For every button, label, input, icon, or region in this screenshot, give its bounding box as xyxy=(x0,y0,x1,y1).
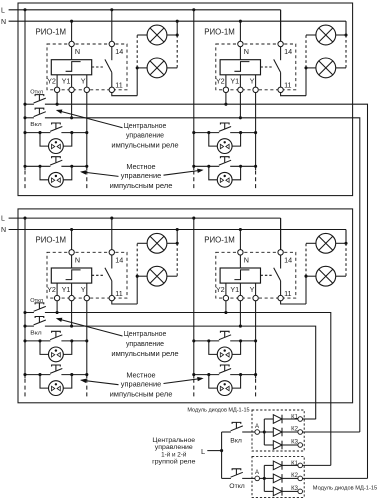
module U1 terminal A xyxy=(255,430,260,435)
pointer to central buttons group 2 xyxy=(58,319,123,336)
svg-text:Центральное: Центральное xyxy=(152,437,195,444)
svg-text:управление: управление xyxy=(155,444,193,451)
pointer to central buttons group 1 xyxy=(58,111,123,128)
module A3 terminal Y2 xyxy=(54,295,59,300)
module A4 terminal 14 xyxy=(278,250,283,255)
svg-text:11: 11 xyxy=(284,81,291,90)
power line N group 1 xyxy=(9,20,346,22)
wires of lamp EL6 xyxy=(137,275,147,277)
diode VD2 of U2 xyxy=(273,474,282,483)
lamp return riser A1 xyxy=(136,68,138,96)
wire N feed to module A2 xyxy=(239,21,241,44)
central OFF bus group 2 xyxy=(25,312,34,314)
lamp EL4 xyxy=(316,58,336,78)
wire L end drop to module A4 contact 14 xyxy=(280,218,282,252)
lamp return riser A4 xyxy=(305,276,307,304)
wire Y1 of A3 to ON bus xyxy=(71,301,73,327)
indicator taps row 1 of A2 xyxy=(209,133,217,147)
svg-text:Y2: Y2 xyxy=(47,77,56,86)
wire N feed to module A1 xyxy=(71,21,73,44)
svg-text:L: L xyxy=(1,7,5,14)
module U2 terminal K2 xyxy=(298,476,303,481)
lamp EL5 xyxy=(147,233,167,253)
module A3 switch contact 14-11 xyxy=(111,255,113,269)
pointer to local buttons left group 2 xyxy=(82,380,119,385)
module A2 terminal Y2 xyxy=(223,87,228,92)
svg-text:управление: управление xyxy=(126,339,164,348)
svg-text:импульсными реле: импульсными реле xyxy=(111,349,178,358)
module A1 terminal N xyxy=(69,41,74,46)
riser to group buttons xyxy=(221,432,223,478)
pointer to local buttons left group 1 xyxy=(82,172,119,177)
svg-text:Вкл: Вкл xyxy=(30,122,41,128)
wire L feed to contact 14 of module A2 xyxy=(280,10,282,44)
module A2 terminal Y xyxy=(253,87,258,92)
module A4 dashed outline xyxy=(216,252,296,298)
button indicator HL8 of A4 xyxy=(217,381,232,396)
svg-text:N: N xyxy=(75,255,80,264)
module A3 coil output stubs Y2 Y1 Y xyxy=(56,283,58,296)
svg-text:К2: К2 xyxy=(291,427,298,433)
wire from terminal 11 of A3 to lamps return xyxy=(112,301,137,304)
module A4 terminal Y xyxy=(253,295,258,300)
group 2 enclosure box xyxy=(18,209,353,403)
lamp EL7 xyxy=(316,233,336,253)
wire K1 of U2 to bus xyxy=(303,464,331,466)
svg-text:Y1: Y1 xyxy=(62,285,71,294)
svg-text:РИО-1М: РИО-1М xyxy=(36,27,67,36)
svg-text:Y1: Y1 xyxy=(230,77,239,86)
svg-text:N: N xyxy=(244,47,249,56)
wire L feed to contact 14 of module A1 xyxy=(111,10,113,44)
wire N feed to module A4 xyxy=(239,230,241,253)
group OFF button SB6 wires xyxy=(222,477,231,479)
module A4 switch contact 14-11 xyxy=(280,255,282,269)
module A2 coil box with impulse symbol xyxy=(220,60,260,75)
module A1 actuator dashed link xyxy=(92,66,105,68)
group ON button SB5 wires xyxy=(222,431,231,433)
indicator taps row 2 of A4 xyxy=(209,375,217,389)
wires of lamp EL7 xyxy=(306,242,316,244)
button indicator HL3 of A2 xyxy=(217,139,232,154)
lamp EL2 xyxy=(147,58,167,78)
module A4 terminal Y1 xyxy=(238,295,243,300)
central ON button SB4 xyxy=(34,320,46,325)
svg-text:К1: К1 xyxy=(291,414,298,420)
svg-text:L: L xyxy=(201,447,205,456)
svg-text:Y2: Y2 xyxy=(216,77,225,86)
module U1 cathode wires xyxy=(282,418,298,420)
wire L feed to contact 14 of module A3 xyxy=(111,218,113,252)
local control line 1 of A2 xyxy=(194,132,219,134)
svg-text:управление: управление xyxy=(121,380,161,389)
local control line 2 of A3 xyxy=(25,374,50,376)
module A3 coil box with impulse symbol xyxy=(51,268,91,283)
module A2 coil output stubs Y2 Y1 Y xyxy=(225,75,227,88)
module A3 terminal Y1 xyxy=(69,295,74,300)
local toggle button SB of A1 row 2 xyxy=(50,160,62,165)
indicator taps row 2 of A2 xyxy=(209,166,217,180)
svg-text:1-й и 2-й: 1-й и 2-й xyxy=(161,450,186,458)
wire L end drop to module A2 contact 14 xyxy=(280,10,282,44)
wires of lamp EL8 xyxy=(306,275,316,277)
module A4 coil output stubs Y2 Y1 Y xyxy=(225,283,227,296)
lamp EL8 xyxy=(316,266,336,286)
button indicator HL6 of A3 xyxy=(49,381,64,396)
svg-text:А: А xyxy=(255,470,259,476)
lamp EL3 xyxy=(316,25,336,45)
wires of lamp EL5 xyxy=(137,242,147,244)
module A2 dashed outline xyxy=(216,44,296,90)
svg-text:К3: К3 xyxy=(291,439,298,445)
svg-text:14: 14 xyxy=(115,47,123,56)
module A2 switch contact 14-11 xyxy=(280,47,282,61)
toggle wire Y riser for A3 xyxy=(86,301,88,379)
wire N feed to module A3 xyxy=(71,230,73,253)
local control line 1 of A3 xyxy=(25,340,50,342)
local feed riser for A1 xyxy=(24,10,26,170)
diode module U1 dashed outline xyxy=(252,410,304,451)
svg-text:11: 11 xyxy=(284,289,291,298)
module A3 terminal N xyxy=(69,250,74,255)
diode VD1 of U2 xyxy=(273,461,282,470)
module A1 dashed outline xyxy=(47,44,127,90)
central ON bus group 2 xyxy=(25,325,34,327)
button indicator HL2 of A1 xyxy=(49,172,64,187)
wires of lamp EL4 xyxy=(306,67,316,69)
svg-text:управление: управление xyxy=(126,131,164,140)
button indicator HL4 of A2 xyxy=(217,172,232,187)
wires of lamp EL3 xyxy=(306,34,316,36)
module A1 terminal Y xyxy=(84,87,89,92)
indicator taps row 1 of A1 xyxy=(40,133,48,147)
local control line 2 of A1 xyxy=(25,165,50,167)
diode VD1 of U1 xyxy=(273,415,282,424)
local control line 1 of A1 xyxy=(25,132,50,134)
svg-text:14: 14 xyxy=(284,256,292,265)
svg-text:11: 11 xyxy=(115,81,122,90)
svg-text:Модуль диодов МД-1-15: Модуль диодов МД-1-15 xyxy=(187,407,249,413)
wire Y2 of A1 to OFF bus xyxy=(56,92,58,104)
wire L feed to contact 14 of module A4 xyxy=(280,218,282,252)
lamp feed drop from N line A2 xyxy=(345,21,347,35)
svg-text:N: N xyxy=(75,47,80,56)
local toggle button SB of A3 row 2 xyxy=(50,369,62,374)
svg-text:14: 14 xyxy=(115,256,123,265)
toggle wire Y riser for A4 xyxy=(255,301,257,379)
central ON bus group 1 xyxy=(25,117,34,119)
module A2 terminal 14 xyxy=(278,41,283,46)
module A4 coil box with impulse symbol xyxy=(220,268,260,283)
module A1 terminal 14 xyxy=(109,41,114,46)
button indicator HL7 of A4 xyxy=(217,347,232,362)
module U2 anode bus xyxy=(260,477,265,479)
local toggle button SB of A2 row 1 xyxy=(219,127,231,132)
wires of lamp EL1 xyxy=(137,34,147,36)
module A4 terminal Y2 xyxy=(223,295,228,300)
wire Y2 of A4 to OFF bus xyxy=(225,301,227,313)
lamp feed drop from N line A1 xyxy=(176,21,178,35)
svg-text:Местное: Местное xyxy=(126,370,155,379)
svg-text:импульсными реле: импульсными реле xyxy=(111,141,178,150)
svg-text:Модуль диодов МД-1-15: Модуль диодов МД-1-15 xyxy=(313,485,377,491)
svg-text:Местное: Местное xyxy=(126,162,155,171)
svg-text:Y1: Y1 xyxy=(62,77,71,86)
central OFF button SB3 xyxy=(34,306,46,311)
power line L group 2 xyxy=(9,217,281,219)
wire K2 of U1 to bus xyxy=(303,431,360,433)
local control line 2 of A4 xyxy=(194,374,219,376)
wire from terminal 11 of A4 to lamps return xyxy=(281,301,306,304)
svg-text:Y2: Y2 xyxy=(216,285,225,294)
wires of lamp EL2 xyxy=(137,67,147,69)
diode module U2 dashed outline xyxy=(252,456,304,497)
lamp feed drop from N line A4 xyxy=(345,230,347,244)
wire K2 of U2 to bus xyxy=(303,477,368,479)
indicator taps row 2 of A3 xyxy=(40,375,48,389)
local control line 1 of A4 xyxy=(194,340,219,342)
svg-text:Вкл: Вкл xyxy=(230,437,242,444)
wire K1 of U1 to bus xyxy=(303,418,316,420)
svg-text:N: N xyxy=(244,255,249,264)
wire Y2 of A3 to OFF bus xyxy=(56,301,58,313)
module A4 terminal N xyxy=(238,250,243,255)
module A1 coil output stubs Y2 Y1 Y xyxy=(56,75,58,88)
wire N end drop to module A4 lamps xyxy=(345,230,347,244)
local feed riser for A4 xyxy=(193,218,195,378)
local toggle button SB of A4 row 1 xyxy=(219,335,231,340)
wire Y1 of A2 to ON bus xyxy=(239,92,241,118)
wire Y1 of A4 to ON bus xyxy=(239,301,241,327)
local toggle button SB of A2 row 2 xyxy=(219,160,231,165)
svg-text:К2: К2 xyxy=(291,473,298,479)
diode VD2 of U1 xyxy=(273,428,282,437)
svg-text:РИО-1М: РИО-1М xyxy=(36,236,67,245)
svg-text:N: N xyxy=(1,19,6,26)
diode VD3 of U2 xyxy=(273,487,282,496)
local feed riser for A2 xyxy=(193,10,195,170)
module A1 terminal 11 xyxy=(109,87,114,92)
button indicator HL1 of A1 xyxy=(49,139,64,154)
svg-text:РИО-1М: РИО-1М xyxy=(204,236,235,245)
module A2 terminal N xyxy=(238,41,243,46)
module U1 terminal K1 xyxy=(298,417,303,422)
toggle wire Y riser for A2 xyxy=(255,92,257,170)
central OFF button SB1 xyxy=(34,98,46,103)
indicator taps row 1 of A3 xyxy=(40,341,48,355)
group 1 enclosure box xyxy=(18,3,353,196)
module A3 terminal 14 xyxy=(109,250,114,255)
module U1 anode bus xyxy=(260,431,265,433)
svg-text:импульсным реле: импульсным реле xyxy=(110,181,173,190)
svg-text:Вкл: Вкл xyxy=(30,330,41,336)
power line L group 1 xyxy=(9,9,281,11)
module U1 terminal K3 xyxy=(298,443,303,448)
local control line 2 of A2 xyxy=(194,165,219,167)
module A4 terminal 11 xyxy=(278,295,283,300)
svg-text:К1: К1 xyxy=(291,461,298,467)
wire N end drop to module A2 lamps xyxy=(345,21,347,35)
lamp EL1 xyxy=(147,25,167,45)
local feed riser for A3 xyxy=(24,218,26,378)
module A3 actuator dashed link xyxy=(92,274,105,276)
module A2 terminal 11 xyxy=(278,87,283,92)
wire from terminal 11 of A2 to lamps return xyxy=(281,92,306,95)
module U2 terminal A xyxy=(255,476,260,481)
pointer to local buttons right group 2 xyxy=(164,378,203,383)
svg-text:Y1: Y1 xyxy=(230,285,239,294)
lamp return riser A3 xyxy=(136,276,138,304)
lamp feed drop from N line A3 xyxy=(176,230,178,244)
svg-text:Центральное: Центральное xyxy=(124,329,167,338)
svg-text:14: 14 xyxy=(284,47,292,56)
module U2 terminal K1 xyxy=(298,463,303,468)
svg-text:Откл: Откл xyxy=(229,483,244,490)
module U1 terminal K2 xyxy=(298,430,303,435)
module A1 terminal Y1 xyxy=(69,87,74,92)
lamp EL6 xyxy=(147,266,167,286)
wire Y2 of A2 to OFF bus xyxy=(225,92,227,104)
pointer to local buttons right group 1 xyxy=(164,170,203,175)
svg-text:импульсным реле: импульсным реле xyxy=(110,390,173,399)
module A1 coil box with impulse symbol xyxy=(51,60,91,75)
module A4 actuator dashed link xyxy=(261,274,274,276)
svg-text:группой реле: группой реле xyxy=(152,458,196,466)
module A1 terminal Y2 xyxy=(54,87,59,92)
diode VD3 of U1 xyxy=(273,441,282,450)
toggle wire Y riser for A1 xyxy=(86,92,88,170)
wire L group control feed xyxy=(207,450,221,452)
module A2 terminal Y1 xyxy=(238,87,243,92)
module U2 cathode wires xyxy=(282,464,298,466)
indicator taps row 1 of A4 xyxy=(209,341,217,355)
svg-text:управление: управление xyxy=(121,171,161,180)
svg-text:Y: Y xyxy=(81,77,86,86)
svg-text:А: А xyxy=(255,424,259,430)
module U2 terminal K3 xyxy=(298,489,303,494)
module A2 actuator dashed link xyxy=(261,66,274,68)
central OFF bus group 1 xyxy=(25,103,34,105)
wire from terminal 11 of A1 to lamps return xyxy=(112,92,137,95)
svg-text:L: L xyxy=(1,216,5,223)
svg-text:N: N xyxy=(1,227,6,234)
local toggle button SB of A1 row 1 xyxy=(50,127,62,132)
lamp return riser A2 xyxy=(305,68,307,96)
indicator taps row 2 of A1 xyxy=(40,166,48,180)
button indicator HL5 of A3 xyxy=(49,347,64,362)
module A1 switch contact 14-11 xyxy=(111,47,113,61)
group OFF button SB6 xyxy=(231,472,243,477)
power line N group 2 xyxy=(9,229,346,231)
svg-text:Центральное: Центральное xyxy=(124,121,167,130)
svg-text:Y: Y xyxy=(250,285,255,294)
central ON button SB2 xyxy=(34,112,46,117)
svg-text:11: 11 xyxy=(115,289,122,298)
svg-text:Y: Y xyxy=(81,285,86,294)
wire Y1 of A1 to ON bus xyxy=(71,92,73,118)
group ON button SB5 xyxy=(231,426,243,431)
svg-text:К3: К3 xyxy=(291,486,298,492)
local toggle button SB of A3 row 1 xyxy=(50,335,62,340)
module A3 terminal Y xyxy=(84,295,89,300)
local toggle button SB of A4 row 2 xyxy=(219,369,231,374)
module A3 dashed outline xyxy=(47,252,127,298)
svg-text:Y: Y xyxy=(250,77,255,86)
module A3 terminal 11 xyxy=(109,295,114,300)
svg-text:РИО-1М: РИО-1М xyxy=(204,27,235,36)
svg-text:Y2: Y2 xyxy=(47,285,56,294)
